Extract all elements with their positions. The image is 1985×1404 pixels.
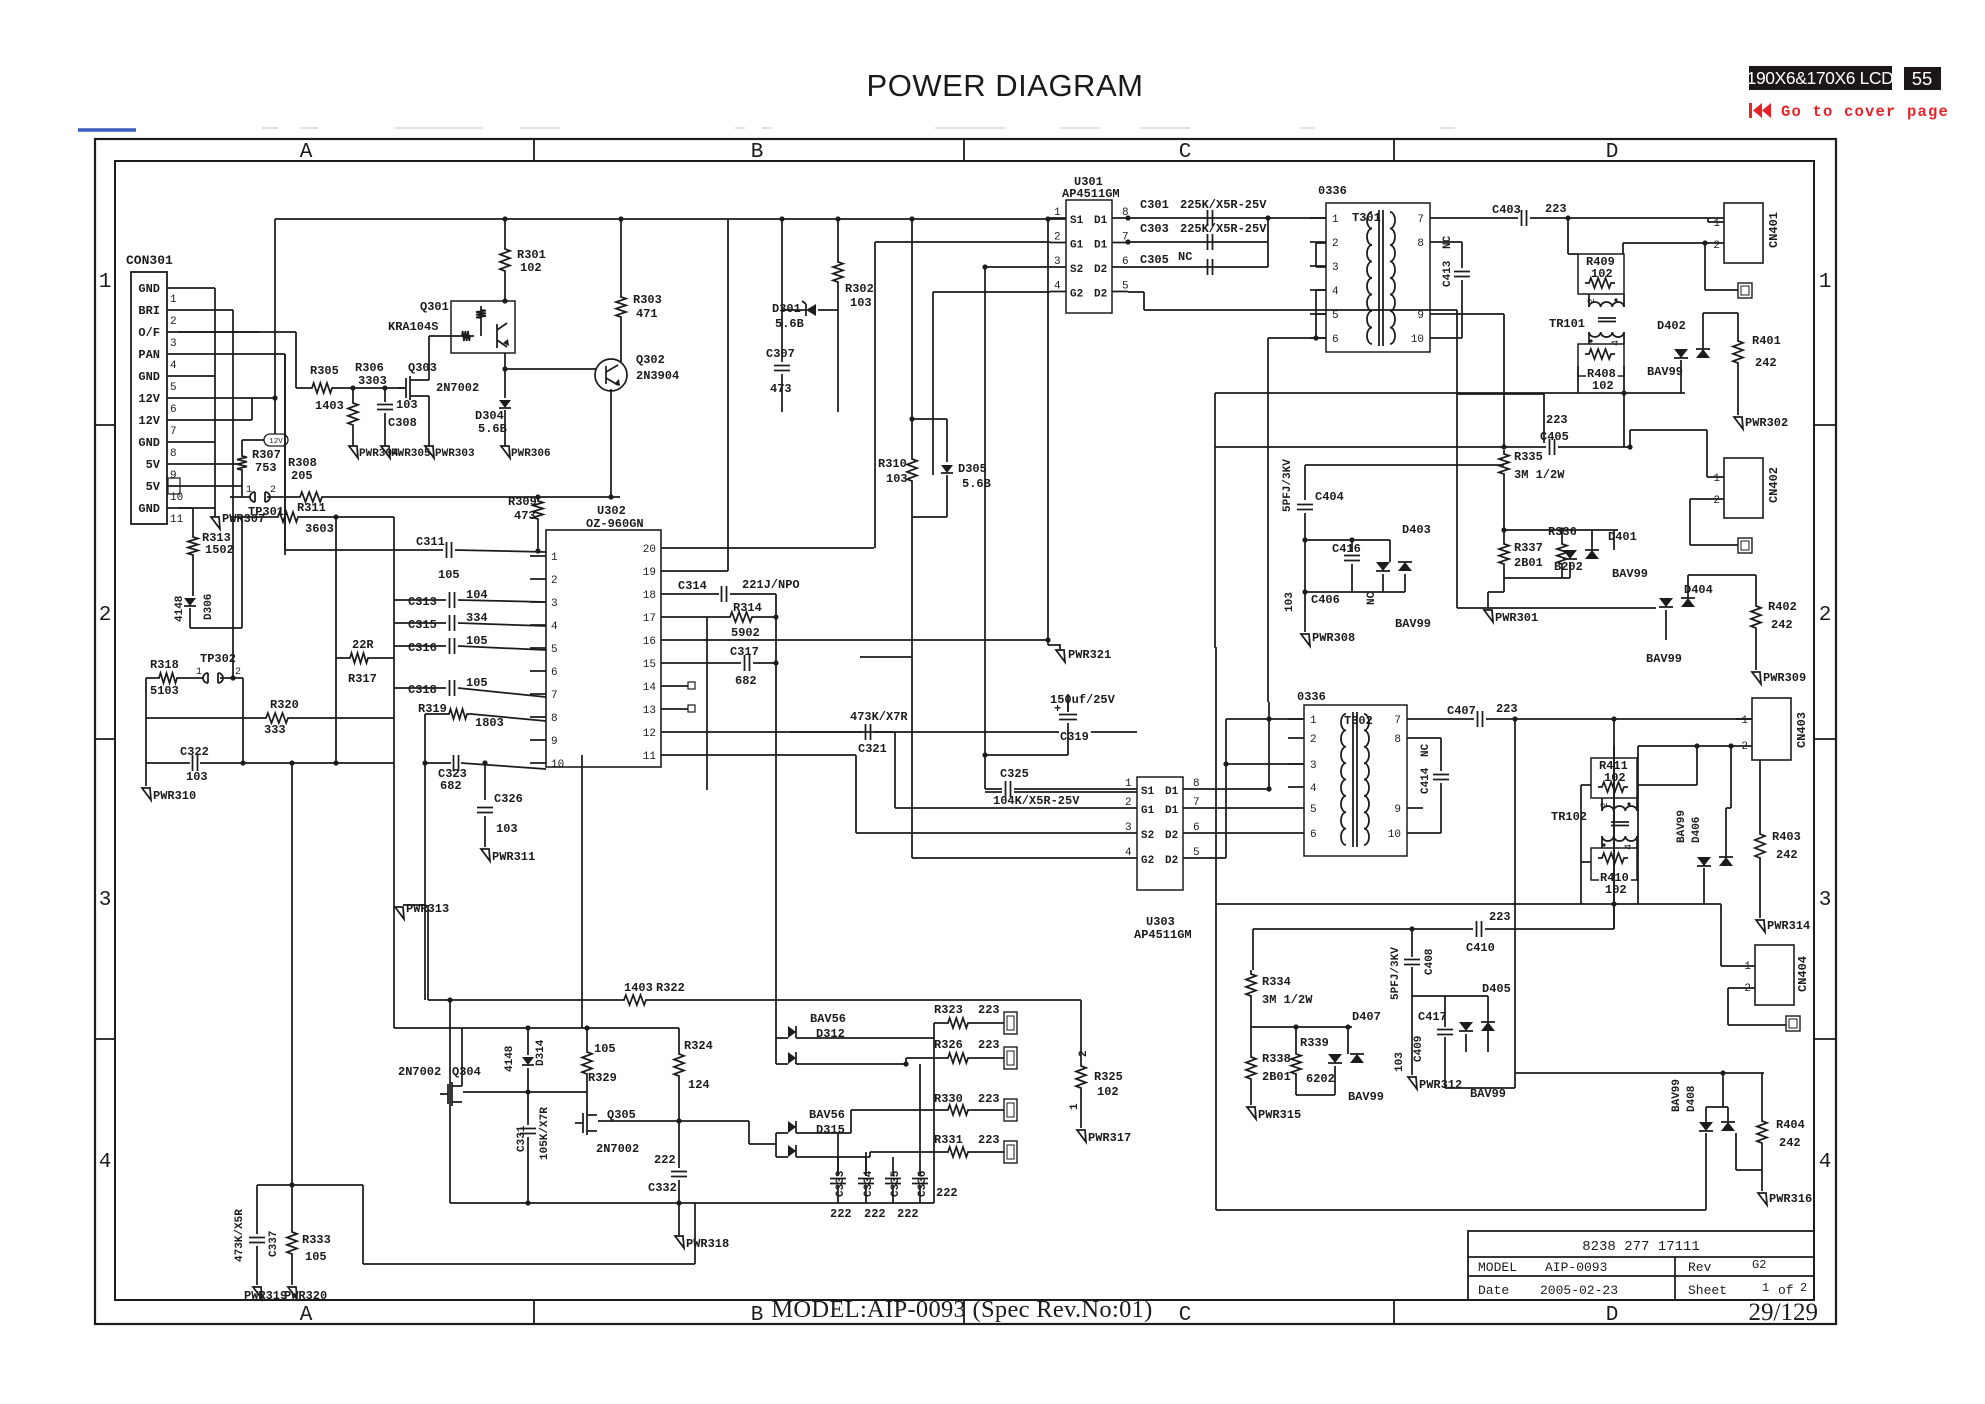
svg-text:Date: Date: [1478, 1283, 1509, 1298]
svg-text:4: 4: [551, 621, 558, 633]
svg-text:B202: B202: [1554, 560, 1583, 574]
svg-text:13: 13: [643, 705, 656, 717]
svg-text:BAV99: BAV99: [1671, 1079, 1683, 1112]
svg-text:8238 277 17111: 8238 277 17111: [1582, 1239, 1700, 1255]
svg-text:12V: 12V: [269, 438, 283, 446]
svg-text:D314: D314: [535, 1039, 547, 1066]
svg-text:2: 2: [1741, 741, 1748, 753]
svg-text:R305: R305: [310, 364, 339, 378]
svg-text:124: 124: [688, 1078, 710, 1092]
svg-text:2B01: 2B01: [1262, 1070, 1291, 1084]
svg-text:1: 1: [1762, 1281, 1769, 1295]
svg-text:3: 3: [1819, 889, 1832, 912]
svg-text:PWR314: PWR314: [1767, 919, 1810, 933]
svg-text:C337: C337: [268, 1231, 280, 1257]
svg-text:S2: S2: [1070, 264, 1083, 276]
svg-text:8: 8: [1394, 734, 1401, 746]
svg-text:103: 103: [1284, 592, 1296, 612]
svg-text:473K/X7R: 473K/X7R: [850, 710, 908, 724]
svg-text:0336: 0336: [1297, 690, 1326, 704]
svg-text:B: B: [751, 141, 764, 164]
svg-text:105: 105: [438, 568, 460, 582]
svg-text:R339: R339: [1300, 1036, 1329, 1050]
svg-text:Q303: Q303: [408, 361, 437, 375]
svg-text:C314: C314: [678, 579, 707, 593]
svg-text:3M 1/2W: 3M 1/2W: [1514, 468, 1565, 482]
svg-text:C321: C321: [858, 742, 887, 756]
svg-text:D315: D315: [816, 1123, 845, 1137]
svg-text:PWR320: PWR320: [284, 1289, 327, 1303]
svg-text:C407: C407: [1447, 704, 1476, 718]
svg-text:473K/X5R: 473K/X5R: [234, 1209, 246, 1262]
svg-text:4: 4: [1310, 783, 1317, 795]
svg-text:GND: GND: [138, 282, 160, 296]
svg-text:C325: C325: [1000, 767, 1029, 781]
svg-text:2N7002: 2N7002: [596, 1142, 639, 1156]
svg-text:5: 5: [1122, 281, 1129, 293]
svg-text:242: 242: [1755, 356, 1777, 370]
svg-text:6: 6: [551, 667, 558, 679]
svg-text:R302: R302: [845, 282, 874, 296]
svg-text:471: 471: [636, 307, 658, 321]
svg-text:C326: C326: [494, 792, 523, 806]
svg-text:4: 4: [1125, 847, 1132, 859]
svg-text:D1: D1: [1094, 240, 1108, 252]
svg-text:R306: R306: [355, 361, 384, 375]
svg-text:T301: T301: [1352, 211, 1381, 225]
svg-text:103: 103: [496, 822, 518, 836]
svg-text:223: 223: [1546, 413, 1568, 427]
svg-text:NC: NC: [1178, 250, 1192, 264]
svg-text:6: 6: [1122, 256, 1129, 268]
svg-text:242: 242: [1776, 848, 1798, 862]
svg-text:C308: C308: [388, 416, 417, 430]
svg-text:PWR302: PWR302: [1745, 416, 1788, 430]
svg-text:223: 223: [1496, 702, 1518, 716]
svg-text:PAN: PAN: [138, 348, 160, 362]
svg-text:Q301: Q301: [420, 300, 449, 314]
svg-text:2: 2: [99, 604, 112, 627]
svg-text:682: 682: [440, 779, 462, 793]
svg-text:CN401: CN401: [1767, 212, 1781, 248]
svg-text:Q304: Q304: [452, 1065, 481, 1079]
svg-text:PWR311: PWR311: [492, 850, 535, 864]
svg-text:C303: C303: [1140, 222, 1169, 236]
svg-text:5V: 5V: [146, 480, 161, 494]
svg-text:NC: NC: [1366, 591, 1378, 605]
svg-text:5: 5: [1193, 847, 1200, 859]
svg-text:C316: C316: [408, 641, 437, 655]
svg-text:223: 223: [978, 1092, 1000, 1106]
svg-text:5: 5: [1332, 310, 1339, 322]
svg-text:1: 1: [99, 271, 112, 294]
svg-text:R310: R310: [878, 457, 907, 471]
svg-text:2: 2: [551, 575, 558, 587]
svg-text:7: 7: [1394, 715, 1401, 727]
svg-text:1: 1: [1332, 214, 1339, 226]
svg-text:C406: C406: [1311, 593, 1340, 607]
svg-text:of: of: [1778, 1283, 1794, 1298]
svg-text:PWR301: PWR301: [1495, 611, 1538, 625]
svg-text:4: 4: [1611, 340, 1622, 346]
svg-text:NC: NC: [1420, 743, 1432, 757]
svg-text:D406: D406: [1691, 817, 1703, 843]
svg-text:222: 222: [936, 1186, 958, 1200]
svg-text:4148: 4148: [174, 595, 186, 622]
svg-text:5.6B: 5.6B: [478, 422, 507, 436]
svg-text:105: 105: [305, 1250, 327, 1264]
svg-text:5.6B: 5.6B: [962, 477, 991, 491]
svg-text:102: 102: [1592, 379, 1614, 393]
svg-text:R331: R331: [934, 1133, 963, 1147]
svg-text:1: 1: [1741, 715, 1748, 727]
svg-text:222: 222: [654, 1153, 676, 1167]
svg-text:D: D: [1606, 1304, 1619, 1327]
svg-text:7: 7: [1417, 214, 1424, 226]
svg-text:O/F: O/F: [138, 326, 160, 340]
svg-text:G2: G2: [1070, 289, 1083, 301]
svg-text:TR101: TR101: [1549, 317, 1585, 331]
svg-text:PWR312: PWR312: [1419, 1078, 1462, 1092]
svg-text:AP4511GM: AP4511GM: [1134, 928, 1192, 942]
svg-text:2: 2: [1713, 495, 1720, 507]
svg-text:R404: R404: [1776, 1118, 1805, 1132]
svg-text:3: 3: [1125, 822, 1132, 834]
svg-text:8: 8: [1193, 778, 1200, 790]
svg-text:C: C: [1179, 1304, 1192, 1327]
svg-text:C414: C414: [1420, 767, 1432, 794]
svg-text:55: 55: [1912, 68, 1933, 89]
svg-text:D401: D401: [1608, 530, 1637, 544]
svg-text:D312: D312: [816, 1027, 845, 1041]
svg-text:14: 14: [643, 682, 657, 694]
svg-text:0336: 0336: [1318, 184, 1347, 198]
svg-text:1: 1: [1713, 218, 1720, 230]
svg-text:MODEL:AIP-0093 (Spec Rev.No:01: MODEL:AIP-0093 (Spec Rev.No:01): [771, 1296, 1152, 1323]
svg-text:D407: D407: [1352, 1010, 1381, 1024]
svg-text:11: 11: [170, 514, 184, 526]
svg-text:9: 9: [1394, 804, 1401, 816]
svg-text:R338: R338: [1262, 1052, 1291, 1066]
svg-text:R334: R334: [1262, 975, 1291, 989]
svg-text:2: 2: [235, 667, 241, 678]
svg-text:104K/X5R-25V: 104K/X5R-25V: [993, 794, 1080, 808]
svg-text:2: 2: [1819, 604, 1832, 627]
svg-text:5902: 5902: [731, 626, 760, 640]
svg-text:225K/X5R-25V: 225K/X5R-25V: [1180, 198, 1267, 212]
svg-text:223: 223: [978, 1133, 1000, 1147]
svg-text:333: 333: [264, 723, 286, 737]
svg-text:22R: 22R: [352, 638, 374, 652]
svg-text:205: 205: [291, 469, 313, 483]
svg-text:105K/X7R: 105K/X7R: [539, 1107, 551, 1160]
svg-text:R326: R326: [934, 1038, 963, 1052]
svg-text:8: 8: [551, 713, 558, 725]
svg-text:473: 473: [770, 382, 792, 396]
svg-text:5PFJ/3KV: 5PFJ/3KV: [1390, 947, 1402, 1000]
svg-text:C404: C404: [1315, 490, 1344, 504]
svg-text:U302: U302: [597, 504, 626, 518]
svg-text:C403: C403: [1492, 203, 1521, 217]
svg-text:3: 3: [1310, 760, 1317, 772]
svg-text:4148: 4148: [504, 1045, 516, 1072]
svg-text:10: 10: [551, 759, 564, 771]
svg-text:2N7002: 2N7002: [398, 1065, 441, 1079]
svg-text:POWER DIAGRAM: POWER DIAGRAM: [867, 68, 1144, 103]
svg-text:1: 1: [1310, 715, 1317, 727]
svg-text:1: 1: [551, 552, 558, 564]
svg-text:TP302: TP302: [200, 652, 236, 666]
svg-text:R303: R303: [633, 293, 662, 307]
svg-text:U303: U303: [1146, 915, 1175, 929]
svg-text:473: 473: [514, 509, 536, 523]
svg-text:19: 19: [643, 567, 656, 579]
svg-text:222: 222: [897, 1207, 919, 1221]
svg-text:R325: R325: [1094, 1070, 1123, 1084]
svg-text:BAV99: BAV99: [1612, 567, 1648, 581]
svg-text:G2: G2: [1752, 1258, 1766, 1272]
svg-text:1: 1: [1069, 1103, 1081, 1110]
svg-text:2N7002: 2N7002: [436, 381, 479, 395]
svg-text:2: 2: [270, 485, 276, 496]
svg-text:12V: 12V: [138, 392, 160, 406]
svg-text:R335: R335: [1514, 450, 1543, 464]
svg-text:PWR316: PWR316: [1769, 1192, 1812, 1206]
svg-text:2: 2: [1800, 1281, 1807, 1295]
svg-text:C318: C318: [408, 683, 437, 697]
svg-text:3M 1/2W: 3M 1/2W: [1262, 993, 1313, 1007]
svg-text:OZ-960GN: OZ-960GN: [586, 517, 644, 531]
svg-text:7: 7: [170, 426, 177, 438]
svg-text:D305: D305: [958, 462, 987, 476]
svg-text:2: 2: [1054, 232, 1061, 244]
svg-text:C311: C311: [416, 535, 445, 549]
svg-text:11: 11: [643, 751, 657, 763]
svg-text:C315: C315: [408, 618, 437, 632]
svg-text:225K/X5R-25V: 225K/X5R-25V: [1180, 222, 1267, 236]
svg-text:5103: 5103: [150, 684, 179, 698]
svg-text:R318: R318: [150, 658, 179, 672]
svg-text:102: 102: [1605, 883, 1627, 897]
svg-text:242: 242: [1779, 1136, 1801, 1150]
svg-text:D408: D408: [1686, 1085, 1698, 1112]
svg-text:2005-02-23: 2005-02-23: [1540, 1283, 1618, 1298]
svg-text:103: 103: [886, 472, 908, 486]
svg-text:R322: R322: [656, 981, 685, 995]
svg-text:102: 102: [520, 261, 542, 275]
svg-text:R307: R307: [252, 448, 281, 462]
svg-text:Go to cover page: Go to cover page: [1781, 103, 1949, 121]
svg-text:BAV99: BAV99: [1646, 652, 1682, 666]
svg-text:222: 222: [830, 1207, 852, 1221]
svg-text:CN402: CN402: [1767, 467, 1781, 503]
svg-text:PWR321: PWR321: [1068, 648, 1111, 662]
svg-text:5V: 5V: [146, 458, 161, 472]
svg-text:20: 20: [643, 544, 656, 556]
svg-text:D2: D2: [1165, 855, 1178, 867]
svg-text:C: C: [1179, 141, 1192, 164]
svg-text:BAV99: BAV99: [1647, 365, 1683, 379]
svg-text:C319: C319: [1060, 730, 1089, 744]
svg-text:223: 223: [1489, 910, 1511, 924]
svg-text:9: 9: [551, 736, 558, 748]
svg-text:223: 223: [978, 1003, 1000, 1017]
svg-text:S1: S1: [1070, 215, 1084, 227]
svg-text:5PFJ/3KV: 5PFJ/3KV: [1282, 459, 1294, 512]
svg-text:BAV99: BAV99: [1470, 1087, 1506, 1101]
svg-text:R309: R309: [508, 495, 537, 509]
svg-text:1403: 1403: [315, 399, 344, 413]
svg-text:4: 4: [1054, 281, 1061, 293]
svg-text:C313: C313: [408, 595, 437, 609]
svg-text:105: 105: [594, 1042, 616, 1056]
svg-text:1803: 1803: [475, 716, 504, 730]
svg-text:G1: G1: [1141, 805, 1155, 817]
svg-text:Sheet: Sheet: [1688, 1283, 1727, 1298]
svg-text:D1: D1: [1094, 215, 1108, 227]
svg-text:D1: D1: [1165, 786, 1179, 798]
svg-text:D301: D301: [772, 302, 801, 316]
svg-text:R301: R301: [517, 248, 546, 262]
svg-text:R337: R337: [1514, 541, 1543, 555]
svg-text:223: 223: [1545, 202, 1567, 216]
svg-text:190X6&170X6 LCD: 190X6&170X6 LCD: [1747, 68, 1894, 88]
svg-text:C322: C322: [180, 745, 209, 759]
svg-text:1: 1: [1125, 778, 1132, 790]
svg-text:PWR309: PWR309: [1763, 671, 1806, 685]
svg-text:18: 18: [643, 590, 656, 602]
svg-text:4: 4: [170, 360, 177, 372]
svg-text:7: 7: [1193, 797, 1200, 809]
svg-text:C409: C409: [1413, 1036, 1425, 1062]
svg-text:103: 103: [186, 770, 208, 784]
svg-text:10: 10: [1388, 829, 1401, 841]
svg-text:5.6B: 5.6B: [775, 317, 804, 331]
svg-text:PWR305: PWR305: [391, 448, 431, 460]
svg-text:R333: R333: [302, 1233, 331, 1247]
svg-text:3: 3: [551, 598, 558, 610]
svg-text:PWR318: PWR318: [686, 1237, 729, 1251]
svg-text:102: 102: [1591, 267, 1613, 281]
svg-text:6: 6: [1310, 829, 1317, 841]
svg-text:9: 9: [1417, 310, 1424, 322]
svg-text:Q302: Q302: [636, 353, 665, 367]
svg-text:105: 105: [466, 676, 488, 690]
svg-text:D402: D402: [1657, 319, 1686, 333]
svg-text:4: 4: [1819, 1151, 1832, 1174]
svg-text:3: 3: [170, 338, 177, 350]
svg-text:AP4511GM: AP4511GM: [1062, 187, 1120, 201]
svg-text:2: 2: [1310, 734, 1317, 746]
svg-text:15: 15: [643, 659, 656, 671]
svg-text:KRA104S: KRA104S: [388, 320, 438, 334]
svg-text:PWR315: PWR315: [1258, 1108, 1301, 1122]
svg-text:753: 753: [255, 461, 277, 475]
svg-text:103: 103: [850, 296, 872, 310]
svg-text:CON301: CON301: [126, 253, 173, 268]
svg-text:3: 3: [1054, 256, 1061, 268]
svg-text:C413: C413: [1442, 260, 1454, 287]
svg-text:A: A: [300, 141, 313, 164]
svg-text:5: 5: [1310, 804, 1317, 816]
svg-text:5: 5: [551, 644, 558, 656]
svg-text:S1: S1: [1141, 786, 1155, 798]
svg-text:R330: R330: [934, 1092, 963, 1106]
svg-text:6: 6: [1332, 334, 1339, 346]
svg-text:1: 1: [1744, 961, 1751, 973]
svg-text:Rev: Rev: [1688, 1260, 1712, 1275]
svg-text:C408: C408: [1424, 948, 1436, 975]
svg-text:9: 9: [170, 470, 177, 482]
svg-text:GND: GND: [138, 502, 160, 516]
svg-text:2N3904: 2N3904: [636, 369, 679, 383]
svg-text:3: 3: [1332, 262, 1339, 274]
svg-text:3303: 3303: [358, 374, 387, 388]
svg-text:4: 4: [1624, 844, 1635, 850]
svg-text:242: 242: [1771, 618, 1793, 632]
svg-text:C305: C305: [1140, 253, 1169, 267]
svg-text:MODEL: MODEL: [1478, 1260, 1517, 1275]
svg-text:2: 2: [1125, 797, 1132, 809]
svg-text:6: 6: [170, 404, 177, 416]
svg-text:1: 1: [1054, 207, 1061, 219]
svg-text:BRI: BRI: [138, 304, 160, 318]
svg-text:GND: GND: [138, 436, 160, 450]
svg-text:6202: 6202: [1306, 1072, 1335, 1086]
svg-text:29/129: 29/129: [1749, 1299, 1818, 1326]
svg-text:2: 2: [170, 316, 177, 328]
svg-text:2: 2: [1078, 1050, 1090, 1057]
svg-text:R402: R402: [1768, 600, 1797, 614]
svg-text:3603: 3603: [305, 522, 334, 536]
svg-text:2: 2: [1713, 240, 1720, 252]
svg-text:222: 222: [864, 1207, 886, 1221]
svg-text:Q305: Q305: [607, 1108, 636, 1122]
svg-text:GND: GND: [138, 370, 160, 384]
svg-text:S2: S2: [1141, 830, 1154, 842]
svg-text:BAV99: BAV99: [1395, 617, 1431, 631]
svg-text:16: 16: [643, 636, 656, 648]
svg-text:BAV56: BAV56: [809, 1108, 845, 1122]
svg-text:PWR308: PWR308: [1312, 631, 1355, 645]
svg-text:D: D: [1606, 141, 1619, 164]
svg-text:PWR306: PWR306: [511, 448, 551, 460]
svg-text:C417: C417: [1418, 1010, 1447, 1024]
svg-text:C416: C416: [1332, 542, 1361, 556]
svg-text:D2: D2: [1165, 830, 1178, 842]
svg-text:CN403: CN403: [1795, 712, 1809, 748]
svg-text:10: 10: [1411, 334, 1424, 346]
svg-text:R324: R324: [684, 1039, 713, 1053]
svg-text:2: 2: [1744, 983, 1751, 995]
svg-text:103: 103: [396, 398, 418, 412]
svg-text:D405: D405: [1482, 982, 1511, 996]
svg-text:D2: D2: [1094, 264, 1107, 276]
svg-text:682: 682: [735, 674, 757, 688]
svg-text:D403: D403: [1402, 523, 1431, 537]
svg-text:223: 223: [978, 1038, 1000, 1052]
svg-text:1502: 1502: [205, 543, 234, 557]
svg-text:PWR319: PWR319: [244, 1289, 287, 1303]
svg-text:12V: 12V: [138, 414, 160, 428]
svg-text:1: 1: [1819, 271, 1832, 294]
svg-text:17: 17: [643, 613, 656, 625]
svg-text:R311: R311: [297, 501, 326, 515]
svg-text:PWR317: PWR317: [1088, 1131, 1131, 1145]
svg-text:G1: G1: [1070, 240, 1084, 252]
svg-text:12: 12: [643, 728, 656, 740]
svg-text:1403: 1403: [624, 981, 653, 995]
